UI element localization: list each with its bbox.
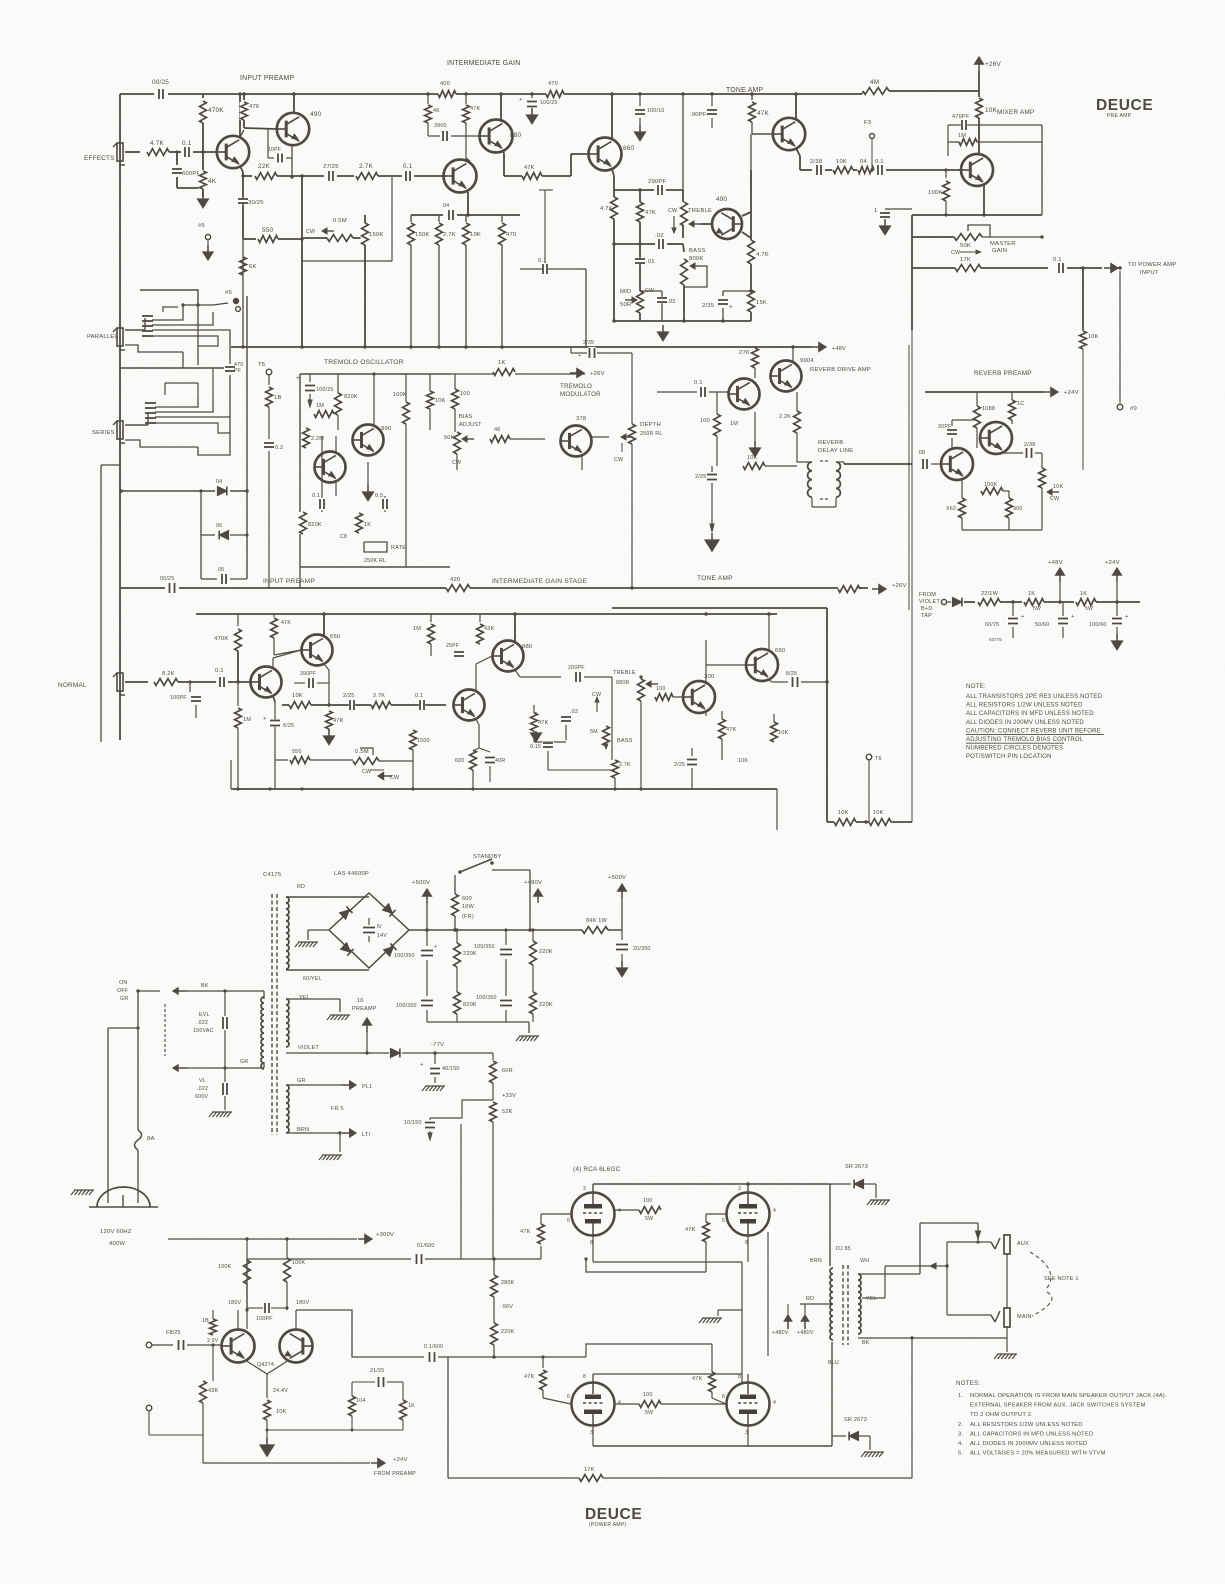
svg-text:0.2: 0.2	[275, 445, 283, 451]
svg-text:6: 6	[567, 1394, 570, 1400]
svg-text:5W: 5W	[645, 1410, 654, 1416]
svg-text:47K: 47K	[692, 1376, 703, 1382]
svg-text:AUX: AUX	[1017, 1241, 1029, 1247]
svg-text:820K: 820K	[308, 522, 322, 528]
svg-text:ALL RESISTORS 1/2W UNLESS NOTE: ALL RESISTORS 1/2W UNLESS NOTED	[970, 1422, 1083, 1428]
svg-text:10K: 10K	[738, 758, 748, 764]
svg-text:3.: 3.	[958, 1431, 963, 1437]
svg-text:17K: 17K	[584, 1467, 595, 1473]
svg-text:4: 4	[773, 1400, 776, 1406]
svg-text:2.7K: 2.7K	[443, 232, 456, 238]
svg-text:MODULATOR: MODULATOR	[560, 391, 601, 398]
svg-text:10K: 10K	[276, 1409, 287, 1415]
svg-text:50K: 50K	[444, 435, 455, 441]
svg-text:+26V: +26V	[985, 61, 1001, 68]
svg-text:4.7K: 4.7K	[756, 252, 769, 258]
svg-text:.03: .03	[570, 709, 578, 715]
svg-text:100K: 100K	[292, 1260, 306, 1266]
svg-text:10K: 10K	[1088, 334, 1099, 340]
svg-text:TONE AMP: TONE AMP	[726, 87, 763, 94]
svg-text:6/25: 6/25	[283, 723, 294, 729]
svg-text:650: 650	[330, 634, 341, 640]
svg-text:10K: 10K	[778, 730, 789, 736]
svg-text:30/25: 30/25	[248, 200, 264, 206]
svg-text:NORMAL: NORMAL	[58, 682, 87, 689]
svg-text:PREAMP: PREAMP	[352, 1006, 377, 1012]
svg-text:52K: 52K	[502, 1109, 513, 1115]
svg-text:+500V: +500V	[412, 880, 430, 886]
svg-text:EVL: EVL	[199, 1012, 210, 1018]
svg-text:.00PF: .00PF	[690, 112, 707, 118]
svg-text:POT/SWITCH PIN LOCATION: POT/SWITCH PIN LOCATION	[966, 754, 1052, 760]
svg-text:100: 100	[700, 418, 710, 424]
svg-text:290PF: 290PF	[648, 179, 667, 185]
svg-text:SERIES: SERIES	[92, 430, 115, 436]
svg-text:0.1: 0.1	[403, 163, 413, 170]
svg-text:+480V: +480V	[772, 1330, 789, 1336]
svg-text:220K: 220K	[539, 1002, 553, 1008]
svg-text:150VAC: 150VAC	[193, 1028, 214, 1034]
svg-text:+: +	[519, 97, 523, 103]
svg-text:10K: 10K	[435, 398, 446, 404]
svg-text:60/75: 60/75	[989, 637, 1002, 643]
svg-text:DELAY LINE: DELAY LINE	[818, 448, 853, 454]
svg-text:120V 60HZ: 120V 60HZ	[100, 1229, 132, 1235]
svg-text:X62: X62	[946, 506, 956, 512]
svg-text:+: +	[729, 304, 733, 311]
svg-text:F3: F3	[864, 120, 872, 126]
svg-text:8.2K: 8.2K	[162, 671, 175, 677]
svg-text:INPUT PREAMP: INPUT PREAMP	[240, 75, 294, 82]
svg-text:660: 660	[775, 648, 786, 654]
svg-text:T6: T6	[875, 756, 882, 762]
svg-text:TREMOLO OSCILLATOR: TREMOLO OSCILLATOR	[324, 359, 404, 366]
svg-text:REVERB DRIVE AMP: REVERB DRIVE AMP	[810, 367, 871, 373]
svg-text:TREBLE: TREBLE	[688, 208, 712, 214]
svg-text:MIXER AMP: MIXER AMP	[997, 109, 1034, 116]
svg-text:100/350: 100/350	[474, 944, 495, 950]
svg-text:STANDBY: STANDBY	[473, 854, 502, 860]
svg-text:0.1: 0.1	[415, 693, 423, 699]
svg-text:2/25: 2/25	[695, 474, 707, 480]
svg-text:OFF: OFF	[117, 988, 129, 994]
svg-text:600PF: 600PF	[182, 171, 201, 177]
svg-text:5M: 5M	[590, 729, 598, 735]
svg-text:+48V: +48V	[1048, 560, 1063, 566]
svg-text:470: 470	[506, 232, 517, 238]
svg-text:DEPTH: DEPTH	[640, 422, 661, 428]
svg-text:#5: #5	[198, 223, 205, 229]
svg-text:50/60: 50/60	[1035, 622, 1049, 628]
svg-text:47K: 47K	[520, 1229, 531, 1235]
svg-text:.02: .02	[667, 299, 676, 305]
svg-text:47K: 47K	[524, 165, 535, 171]
svg-text:24.4V: 24.4V	[273, 1388, 288, 1394]
svg-text:+: +	[420, 1062, 424, 1068]
svg-text:2/35: 2/35	[702, 303, 715, 309]
svg-text:490: 490	[310, 111, 322, 118]
svg-text:1M: 1M	[243, 717, 251, 723]
svg-text:104: 104	[356, 1398, 366, 1404]
svg-text:180V: 180V	[228, 1300, 242, 1306]
svg-text:06: 06	[216, 523, 222, 529]
svg-text:(POWER AMP): (POWER AMP)	[589, 1522, 626, 1528]
svg-text:880: 880	[510, 132, 522, 139]
svg-text:GAIN: GAIN	[992, 248, 1007, 254]
svg-text:1B: 1B	[202, 1318, 209, 1324]
svg-text:TONE AMP: TONE AMP	[697, 575, 733, 582]
svg-text:+480V: +480V	[797, 1330, 814, 1336]
svg-text:47K: 47K	[470, 106, 481, 112]
svg-text:43K: 43K	[484, 626, 495, 632]
svg-text:SR 2673: SR 2673	[845, 1164, 868, 1170]
svg-text:600: 600	[462, 896, 472, 902]
svg-text:BRN: BRN	[810, 1258, 822, 1264]
svg-text:MID: MID	[620, 289, 631, 295]
svg-text:NORMAL OPERATION IS FROM MAIN: NORMAL OPERATION IS FROM MAIN SPEAKER OU…	[970, 1393, 1167, 1399]
svg-text:47K: 47K	[685, 1227, 696, 1233]
svg-text:VIOLET: VIOLET	[919, 599, 940, 605]
svg-text:476: 476	[249, 104, 260, 110]
svg-text:BK: BK	[201, 983, 209, 989]
svg-text:3900: 3900	[434, 123, 447, 129]
svg-text:10W: 10W	[462, 904, 475, 910]
svg-text:46: 46	[494, 427, 501, 433]
svg-text:0.15: 0.15	[530, 744, 541, 750]
svg-text:100/350: 100/350	[476, 995, 497, 1001]
svg-text:ALL DIODES IN 200MV UNLESS NOT: ALL DIODES IN 200MV UNLESS NOTED	[966, 720, 1084, 726]
svg-text:47K: 47K	[281, 620, 291, 626]
svg-text:47K: 47K	[645, 210, 656, 216]
svg-text:+24V: +24V	[393, 1457, 408, 1463]
svg-text:990: 990	[381, 426, 392, 432]
svg-text:880R: 880R	[616, 680, 630, 686]
svg-text:CW: CW	[1050, 496, 1060, 502]
svg-text:(FR): (FR)	[462, 914, 474, 920]
svg-text:820K: 820K	[344, 394, 358, 400]
svg-text:00/25: 00/25	[152, 79, 169, 86]
svg-text:0.5M: 0.5M	[333, 218, 347, 224]
svg-text:22/1W: 22/1W	[981, 591, 999, 597]
svg-text:BK: BK	[862, 1340, 870, 1346]
svg-text:8: 8	[583, 1374, 586, 1380]
svg-text:2/25: 2/25	[674, 762, 685, 768]
svg-text:250R RL: 250R RL	[640, 431, 663, 437]
svg-text:5: 5	[567, 1218, 570, 1224]
svg-text:400W: 400W	[109, 1241, 125, 1247]
svg-text:RATE: RATE	[391, 545, 406, 551]
svg-text:10K: 10K	[836, 159, 847, 165]
svg-text:ALL TRANSISTORS 2PE RE3 UNLESS: ALL TRANSISTORS 2PE RE3 UNLESS NOTED	[966, 694, 1103, 700]
svg-text:1K: 1K	[1028, 591, 1035, 597]
svg-text:100/350: 100/350	[396, 1003, 417, 1009]
svg-text:CW: CW	[951, 250, 961, 256]
svg-text:6: 6	[722, 1394, 725, 1400]
svg-text:378: 378	[576, 416, 587, 422]
svg-text:NOTE:: NOTE:	[966, 683, 986, 690]
svg-text:100: 100	[643, 1198, 653, 1204]
svg-text:Q4274: Q4274	[257, 1362, 274, 1368]
svg-text:0.1: 0.1	[538, 258, 547, 264]
svg-text:27K: 27K	[739, 350, 750, 356]
svg-text:.022: .022	[197, 1020, 208, 1026]
svg-text:100: 100	[656, 686, 666, 692]
svg-text:470: 470	[548, 81, 558, 87]
svg-text:+: +	[1021, 614, 1025, 620]
svg-text:RD: RD	[806, 1296, 814, 1302]
svg-text:6/: 6/	[377, 924, 382, 930]
svg-text:1K: 1K	[408, 1403, 415, 1409]
svg-text:150K: 150K	[369, 232, 384, 238]
svg-text:DEUCE: DEUCE	[1096, 97, 1153, 114]
svg-text:4: 4	[773, 1208, 776, 1214]
svg-text:40/150: 40/150	[442, 1066, 460, 1072]
svg-text:INTERMEDIATE GAIN STAGE: INTERMEDIATE GAIN STAGE	[492, 578, 588, 585]
svg-text:REVERB: REVERB	[818, 440, 843, 446]
svg-text:4: 4	[618, 1400, 621, 1406]
svg-text:5: 5	[722, 1218, 725, 1224]
svg-text:CW: CW	[614, 457, 624, 463]
svg-text:BLU: BLU	[828, 1360, 839, 1366]
svg-text:4.7K: 4.7K	[150, 140, 165, 147]
svg-text:84K 1W: 84K 1W	[586, 918, 607, 924]
svg-text:INPUT PREAMP: INPUT PREAMP	[263, 578, 315, 585]
svg-text:05: 05	[218, 567, 224, 573]
svg-text:0.1: 0.1	[1053, 257, 1062, 263]
svg-text:100K: 100K	[218, 1264, 232, 1270]
svg-text:GR: GR	[120, 996, 128, 1002]
svg-text:EFFECTS: EFFECTS	[84, 155, 115, 162]
svg-text:MAIN: MAIN	[1017, 1314, 1032, 1320]
svg-text:2/25: 2/25	[343, 693, 355, 699]
svg-text:2.: 2.	[958, 1422, 963, 1428]
svg-text:600: 600	[455, 758, 465, 764]
svg-text:420: 420	[450, 577, 461, 583]
svg-text:GR: GR	[240, 1059, 248, 1065]
svg-text:0.1: 0.1	[875, 159, 884, 165]
svg-text:0.5: 0.5	[375, 493, 383, 499]
svg-text:1088: 1088	[982, 406, 995, 412]
svg-text:01/600: 01/600	[417, 1243, 435, 1249]
svg-text:ADJUSTING TREMOLO BIAS CONTROL: ADJUSTING TREMOLO BIAS CONTROL	[966, 737, 1084, 743]
svg-text:2/38: 2/38	[1024, 442, 1036, 448]
svg-text:10K: 10K	[747, 455, 758, 461]
svg-text:+: +	[578, 353, 581, 359]
svg-text:+24V: +24V	[1105, 560, 1120, 566]
svg-text:CW: CW	[306, 229, 316, 235]
svg-text:ALL CAPACITORS IN MFD UNLESS N: ALL CAPACITORS IN MFD UNLESS NOTED	[966, 711, 1094, 717]
svg-text:0.1: 0.1	[694, 380, 703, 386]
svg-text:8A: 8A	[147, 1136, 155, 1142]
svg-text:20/350: 20/350	[633, 946, 651, 952]
svg-text:100K: 100K	[393, 392, 407, 398]
svg-text:BASS: BASS	[689, 248, 705, 254]
svg-text:10/150: 10/150	[404, 1120, 422, 1126]
svg-text:BIAS: BIAS	[459, 414, 473, 420]
svg-text:PARALLEL: PARALLEL	[87, 334, 118, 340]
svg-text:5.: 5.	[958, 1451, 963, 1457]
svg-text:4.: 4.	[958, 1441, 963, 1447]
svg-text:DJ 85: DJ 85	[836, 1246, 851, 1252]
svg-text:60R: 60R	[502, 1068, 513, 1074]
svg-text:F8/25: F8/25	[166, 1330, 181, 1336]
svg-text:+300V: +300V	[376, 1232, 394, 1238]
svg-text:100PF: 100PF	[170, 695, 187, 701]
svg-text:+: +	[263, 716, 267, 722]
svg-text:WH: WH	[860, 1258, 869, 1264]
svg-text:100PF: 100PF	[256, 1316, 273, 1322]
svg-text:+: +	[1125, 614, 1129, 620]
svg-text:-77V: -77V	[431, 1042, 444, 1048]
svg-text:1M: 1M	[730, 421, 738, 427]
svg-text:PRE AMP: PRE AMP	[1107, 113, 1132, 119]
svg-text:+: +	[434, 944, 438, 950]
svg-text:BASS: BASS	[617, 738, 633, 744]
svg-text:100K: 100K	[984, 482, 998, 488]
svg-text:5W: 5W	[1085, 606, 1093, 612]
svg-text:1K: 1K	[498, 360, 506, 366]
svg-text:100/25: 100/25	[540, 100, 558, 106]
svg-text:FROM PREAMP: FROM PREAMP	[374, 1471, 416, 1477]
svg-text:2/35: 2/35	[583, 340, 594, 346]
svg-text:C4175: C4175	[263, 872, 282, 878]
svg-text:220K: 220K	[463, 951, 477, 957]
svg-text:1M: 1M	[413, 626, 421, 632]
svg-text:C8: C8	[340, 534, 347, 540]
svg-text:10K: 10K	[470, 232, 481, 238]
svg-text:40R: 40R	[495, 758, 505, 764]
svg-text:880: 880	[522, 644, 533, 650]
svg-text:820K: 820K	[463, 1002, 477, 1008]
svg-text:#9: #9	[1130, 406, 1137, 412]
svg-text:+: +	[1071, 614, 1075, 620]
svg-text:VL: VL	[199, 1078, 206, 1084]
svg-text:47K: 47K	[726, 727, 737, 733]
svg-text:60/75: 60/75	[985, 622, 999, 628]
svg-text:550: 550	[262, 227, 274, 234]
svg-text:ALL DIODES IN 2000MV UNLESS NO: ALL DIODES IN 2000MV UNLESS NOTED	[970, 1441, 1087, 1447]
svg-text:220K: 220K	[539, 949, 553, 955]
svg-text:04: 04	[860, 159, 867, 165]
svg-text:NOTES:: NOTES:	[956, 1380, 980, 1387]
svg-text:LTI: LTI	[362, 1132, 370, 1138]
svg-text:250K RL: 250K RL	[364, 558, 386, 564]
svg-text:9904: 9904	[800, 358, 814, 364]
svg-text:RD: RD	[297, 884, 305, 890]
svg-text:100/10: 100/10	[647, 108, 665, 114]
svg-text:TAP: TAP	[921, 613, 932, 619]
svg-text:10K: 10K	[292, 693, 303, 699]
svg-text:ADJUST: ADJUST	[459, 422, 482, 428]
svg-text:200PF: 200PF	[568, 665, 585, 671]
svg-text:EXTERNAL SPEAKER FROM AUX. JAC: EXTERNAL SPEAKER FROM AUX. JACK SWITCHES…	[970, 1403, 1145, 1409]
svg-text:470K: 470K	[208, 107, 224, 114]
svg-text:400: 400	[440, 81, 450, 87]
svg-text:5W: 5W	[1033, 606, 1041, 612]
svg-text:ALL RESISTORS 1/2W UNLESS NOTE: ALL RESISTORS 1/2W UNLESS NOTED	[966, 703, 1083, 709]
svg-text:.08: .08	[917, 450, 925, 456]
svg-text:47K: 47K	[757, 110, 770, 117]
svg-text:CW: CW	[668, 208, 678, 214]
svg-text:1K: 1K	[364, 522, 371, 528]
svg-text:800K: 800K	[689, 256, 704, 262]
svg-text:2/38: 2/38	[810, 159, 823, 165]
svg-text:+26V: +26V	[590, 371, 605, 377]
svg-text:100: 100	[643, 1392, 653, 1398]
svg-text:REVERB PREAMP: REVERB PREAMP	[974, 370, 1032, 377]
svg-text:50R: 50R	[620, 302, 631, 308]
svg-text:+26V: +26V	[892, 583, 907, 589]
svg-text:0.1/600: 0.1/600	[424, 1344, 443, 1350]
svg-text:TO 2 OHM OUTPUT 2.: TO 2 OHM OUTPUT 2.	[970, 1412, 1033, 1418]
svg-text:390PF: 390PF	[300, 671, 316, 677]
svg-text:+33V: +33V	[502, 1093, 516, 1099]
svg-text:600V: 600V	[195, 1094, 209, 1100]
svg-text:CW: CW	[390, 775, 400, 781]
svg-text:VIOLET: VIOLET	[298, 1045, 319, 1051]
svg-text:10K: 10K	[838, 810, 849, 816]
svg-text:SEE NOTE 1: SEE NOTE 1	[1044, 1276, 1079, 1282]
svg-text:1B: 1B	[274, 395, 282, 401]
svg-text:1500: 1500	[417, 738, 430, 744]
svg-text:47K: 47K	[333, 718, 344, 724]
svg-text:NUMBERED CIRCLES DENOTES: NUMBERED CIRCLES DENOTES	[966, 746, 1063, 752]
svg-text:860: 860	[623, 145, 635, 152]
svg-text:22K: 22K	[258, 163, 271, 170]
svg-text:1M: 1M	[958, 133, 966, 139]
svg-text:-56V: -56V	[501, 1304, 513, 1310]
svg-text:8/25: 8/25	[786, 671, 797, 677]
svg-text:FROM: FROM	[919, 592, 936, 598]
svg-text:60/YEL: 60/YEL	[303, 976, 322, 982]
svg-text:2.9V: 2.9V	[207, 1338, 219, 1344]
svg-text:1.: 1.	[958, 1393, 963, 1399]
svg-text:4.7K: 4.7K	[600, 206, 613, 212]
svg-text:0.1: 0.1	[215, 668, 224, 674]
svg-text:10PF: 10PF	[268, 147, 281, 153]
svg-text:150K: 150K	[415, 232, 430, 238]
svg-text:550: 550	[292, 749, 302, 755]
svg-text:3: 3	[738, 1186, 741, 1192]
svg-text:27/25: 27/25	[323, 164, 339, 170]
svg-text:43K: 43K	[208, 1388, 219, 1394]
svg-text:470PF: 470PF	[952, 114, 970, 120]
svg-text:47K: 47K	[538, 720, 549, 726]
svg-text:LAS 44600P: LAS 44600P	[334, 871, 369, 877]
svg-text:47K: 47K	[524, 1374, 535, 1380]
svg-text:04: 04	[443, 203, 449, 209]
svg-text:+48V: +48V	[832, 346, 846, 352]
svg-text:280K: 280K	[501, 1280, 515, 1286]
svg-text:TREMOLO: TREMOLO	[560, 383, 592, 390]
svg-text:2.2K: 2.2K	[779, 414, 791, 420]
svg-text:4K: 4K	[208, 178, 217, 185]
svg-text:1C: 1C	[1017, 401, 1025, 407]
svg-text:GR: GR	[297, 1078, 306, 1084]
svg-text:2.7K: 2.7K	[619, 762, 631, 768]
svg-text:50K: 50K	[960, 243, 971, 249]
svg-text:490: 490	[716, 196, 728, 203]
svg-text:100K: 100K	[928, 190, 943, 196]
svg-text:PL1: PL1	[362, 1084, 372, 1090]
svg-text:100/60: 100/60	[1089, 622, 1107, 628]
svg-text:.022: .022	[197, 1086, 208, 1092]
svg-text:1M: 1M	[316, 403, 324, 409]
svg-text:BRN: BRN	[297, 1127, 309, 1133]
svg-text:0.1: 0.1	[312, 493, 320, 499]
svg-text:0.1: 0.1	[182, 140, 192, 147]
svg-text:ON: ON	[119, 980, 127, 986]
